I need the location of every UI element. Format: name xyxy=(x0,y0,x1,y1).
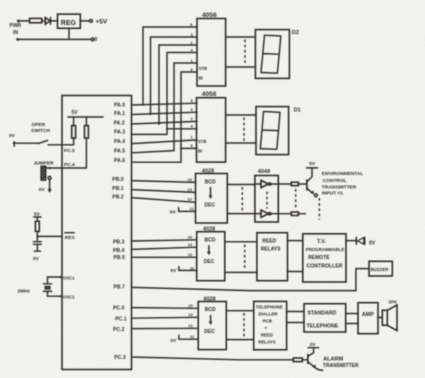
wire PA.0 xyxy=(132,103,198,105)
wire RES xyxy=(37,235,62,237)
decoder U2 4056 xyxy=(197,19,226,87)
wire PC.2 xyxy=(132,327,199,329)
wire xyxy=(42,20,45,22)
wire PA.5 xyxy=(132,151,175,153)
ground xyxy=(34,250,40,252)
wire xyxy=(36,244,38,250)
wire PA.4 xyxy=(132,140,198,144)
wire xyxy=(85,117,87,126)
wire PC.1 xyxy=(132,316,199,319)
wire PB.0 xyxy=(132,181,196,183)
wire xyxy=(85,138,87,168)
decoder U4 4028 xyxy=(196,174,228,224)
wire PC.3 xyxy=(132,357,294,360)
wire xyxy=(36,231,38,241)
junction xyxy=(180,147,182,149)
inverter U5b xyxy=(255,213,261,215)
wire PA.6 xyxy=(132,161,182,163)
wire xyxy=(302,359,307,361)
wire bus vertical PA.6 to U2 pin6 xyxy=(181,72,197,162)
+5V terminal xyxy=(90,20,93,23)
wire to D2 xyxy=(226,66,256,68)
repeat channels dashed xyxy=(318,198,320,220)
crystal X1 2MHz xyxy=(48,277,62,296)
display D2 xyxy=(255,30,289,79)
2V rail Q2 xyxy=(308,347,319,349)
wire PC.4 xyxy=(46,167,87,169)
wire xyxy=(288,240,303,242)
inverter U5a xyxy=(255,183,261,185)
resistor R5 xyxy=(291,182,298,186)
repeat channels dashed xyxy=(295,189,297,210)
reed relays box U7 xyxy=(257,233,288,281)
buffer U5 4049 xyxy=(255,176,278,223)
TV remote controller box U8 xyxy=(303,234,346,282)
paper grain xyxy=(0,0,1,1)
wire to D2 xyxy=(226,36,256,38)
diode D3 xyxy=(45,18,50,25)
bus continuation dashed xyxy=(243,118,245,142)
wire bus vertical PA.3 to U2 pin4 xyxy=(167,53,197,135)
wire to D1 xyxy=(226,114,256,116)
wire PA.1 xyxy=(132,112,198,114)
decoder U6 4028 xyxy=(197,232,225,281)
wire to dialler xyxy=(226,310,253,312)
wire PB.1 xyxy=(132,190,196,193)
wire xyxy=(346,313,358,315)
display D1 xyxy=(256,107,289,155)
wire xyxy=(288,271,303,273)
wire to reed relays xyxy=(225,271,257,273)
wire PB.2 xyxy=(132,198,196,203)
microcontroller U1 xyxy=(62,96,132,370)
wire xyxy=(346,240,356,242)
bus continuation dashed xyxy=(266,192,268,209)
decoder U3 4056 xyxy=(197,98,226,162)
buzzer BZ1 xyxy=(369,261,392,276)
junction xyxy=(36,235,38,237)
wire PB.3 xyxy=(132,240,197,241)
resistor R6 xyxy=(291,212,298,216)
resistor R2 xyxy=(72,126,76,139)
wire branch to U3 pin6 xyxy=(181,147,197,149)
wire bus vertical PA.0 to U2 pin1 xyxy=(143,27,197,105)
wire bus vertical PA.5 to U2 pin5 xyxy=(174,63,197,151)
wire xyxy=(51,20,58,22)
wire PC.0 xyxy=(132,307,199,310)
wire PA.3 xyxy=(132,133,168,135)
wire xyxy=(80,20,89,22)
wire xyxy=(298,213,305,215)
wire xyxy=(287,311,304,313)
bus continuation dashed xyxy=(244,40,246,65)
junction xyxy=(49,167,51,169)
terminal xyxy=(314,194,317,197)
wire PB.7 to buzzer xyxy=(132,269,370,291)
decoder U9 4028 xyxy=(198,302,226,350)
resistor R7 xyxy=(293,358,302,362)
5V rail Q1 xyxy=(307,167,318,169)
standard telephone box U11 xyxy=(304,304,346,332)
capacitor C1 xyxy=(33,242,41,245)
wire bus vertical PA.1 to U2 pin2 xyxy=(151,37,198,114)
bus continuation dashed xyxy=(244,245,246,271)
wire to D1 xyxy=(226,142,256,144)
wire PB.4 xyxy=(132,247,197,249)
resistor R3 xyxy=(85,126,89,139)
wire bus vertical PA.2 to U2 pin3 xyxy=(159,45,197,124)
amplifier AMP xyxy=(358,303,378,334)
wire xyxy=(73,117,75,126)
telephone dialler box U10 xyxy=(254,301,287,349)
wire to reed relays xyxy=(225,241,257,243)
bus continuation dashed xyxy=(243,313,245,337)
0 terminal xyxy=(91,38,94,41)
junction xyxy=(142,104,144,106)
wire PA.2 xyxy=(132,121,198,124)
speaker SPK xyxy=(382,310,387,325)
wire 0V rail xyxy=(19,38,91,40)
wire from REG to 0V rail xyxy=(68,28,70,39)
wire xyxy=(378,317,382,319)
transistor Q1 xyxy=(306,179,308,190)
wire xyxy=(73,138,75,145)
wire to dialler xyxy=(226,339,253,341)
wire xyxy=(298,183,306,185)
wire xyxy=(287,322,304,324)
junction xyxy=(158,123,160,125)
wire to U5 xyxy=(227,213,255,215)
test point to 0V xyxy=(48,176,51,179)
wire PC.5 xyxy=(48,144,74,146)
wire branch to U3 pin4 xyxy=(167,128,197,130)
PWR IN terminal + xyxy=(17,20,20,23)
wire to U5 xyxy=(227,184,255,186)
junction xyxy=(149,113,151,115)
wire PB.5 xyxy=(132,256,197,258)
resistor R1 xyxy=(30,18,42,22)
transistor Q2 xyxy=(307,354,309,364)
wire xyxy=(20,20,30,22)
bus continuation dashed xyxy=(241,187,243,211)
junction xyxy=(166,128,168,130)
resistor R4 xyxy=(35,221,39,231)
regulator REG xyxy=(58,14,81,28)
IR LED D4 xyxy=(355,237,357,244)
wire xyxy=(346,323,358,325)
0V terminal xyxy=(16,38,19,41)
